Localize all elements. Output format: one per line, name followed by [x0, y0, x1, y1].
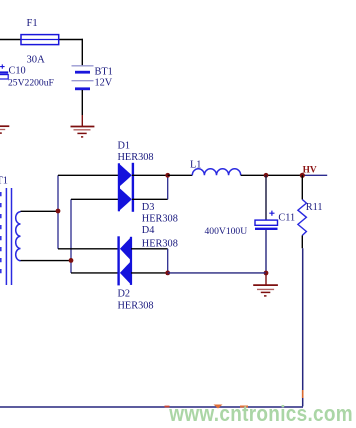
svg-text:C11: C11	[278, 213, 295, 224]
svg-text:HER308: HER308	[142, 213, 178, 224]
svg-text:HV: HV	[303, 166, 317, 176]
svg-text:BT1: BT1	[95, 67, 113, 78]
svg-text:L1: L1	[190, 160, 201, 171]
svg-text:D1: D1	[118, 141, 131, 152]
svg-text:D3: D3	[142, 202, 155, 213]
svg-text:25V2200uF: 25V2200uF	[8, 78, 54, 89]
svg-text:400V100U: 400V100U	[205, 226, 248, 237]
svg-text:30A: 30A	[27, 55, 46, 66]
svg-text:D4: D4	[142, 225, 155, 236]
svg-text:HER308: HER308	[142, 239, 178, 250]
svg-text:HER308: HER308	[118, 301, 154, 312]
svg-text:www.cntronics.com: www.cntronics.com	[168, 401, 353, 426]
svg-text:F1: F1	[27, 18, 38, 29]
svg-text:T1: T1	[0, 175, 8, 186]
svg-text:HER308: HER308	[118, 152, 154, 163]
svg-text:R11: R11	[306, 202, 323, 213]
svg-text:C10: C10	[9, 66, 26, 77]
svg-text:12V: 12V	[95, 78, 113, 89]
svg-text:D2: D2	[118, 288, 131, 299]
